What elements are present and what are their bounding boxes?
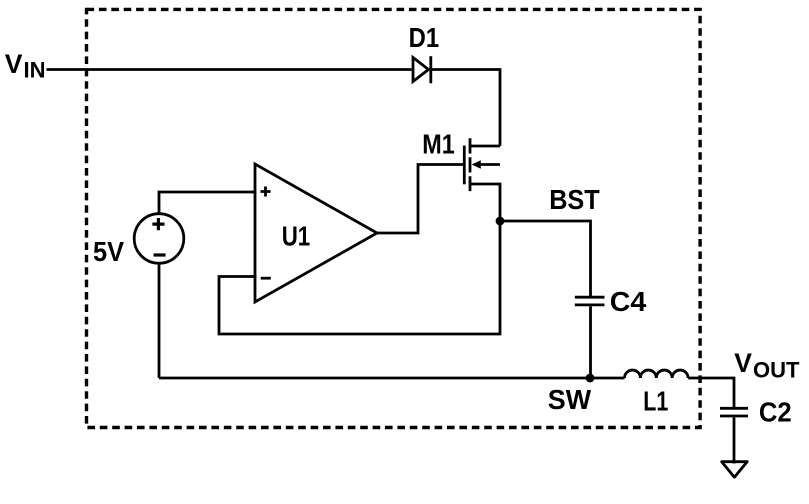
svg-text:C4: C4: [610, 286, 647, 317]
svg-text:V: V: [5, 49, 23, 79]
svg-text:BST: BST: [549, 184, 600, 215]
svg-text:D1: D1: [409, 22, 440, 53]
svg-text:M1: M1: [422, 129, 455, 160]
svg-text:OUT: OUT: [753, 358, 800, 383]
svg-text:U1: U1: [282, 220, 311, 251]
svg-text:SW: SW: [548, 384, 591, 415]
svg-text:5V: 5V: [93, 236, 125, 267]
svg-text:IN: IN: [24, 58, 46, 83]
svg-text:V: V: [734, 348, 752, 378]
svg-text:L1: L1: [643, 386, 668, 417]
svg-text:C2: C2: [759, 396, 792, 427]
